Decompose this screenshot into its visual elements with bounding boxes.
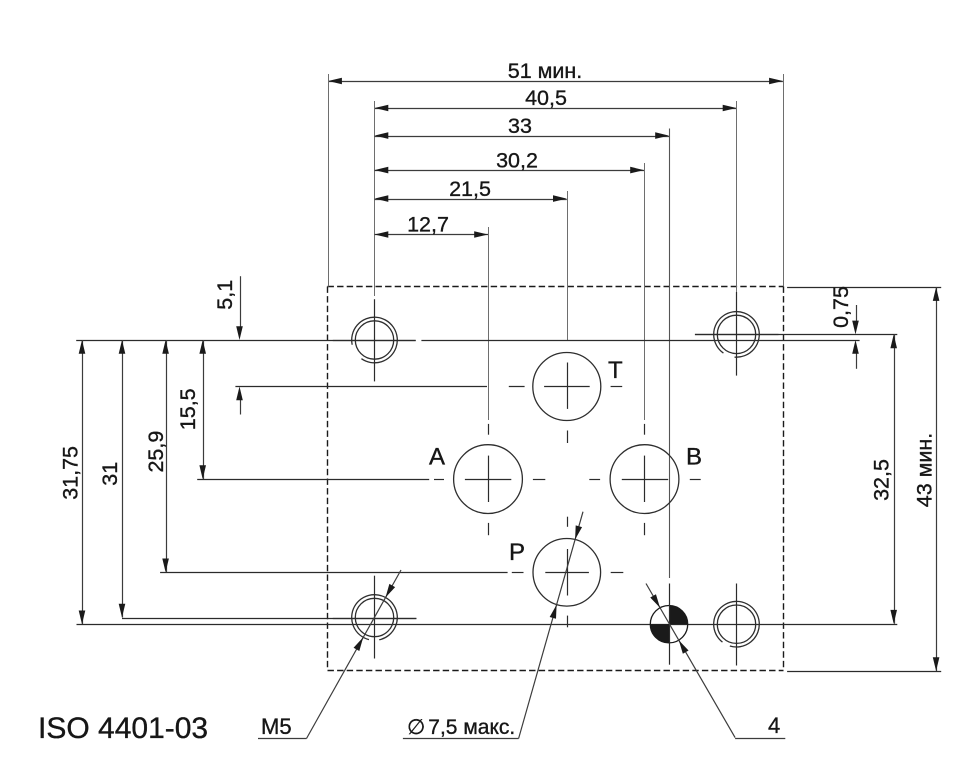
svg-text:32,5: 32,5: [870, 459, 894, 501]
port A: [429, 444, 522, 514]
extension line ports P/T centre: [567, 191, 569, 340]
port P: [509, 539, 601, 607]
svg-text:31: 31: [98, 462, 122, 486]
dimension 31 (left): [98, 340, 125, 618]
P centreline dash below: [567, 616, 569, 628]
port B: [610, 444, 702, 514]
svg-text:25,9: 25,9: [144, 431, 168, 473]
dimension 15,5 (left): [176, 340, 206, 479]
extension line pin hole centre: [669, 129, 671, 579]
svg-text:33: 33: [508, 114, 532, 138]
right extension line F2 level: [695, 334, 897, 336]
svg-text:M5: M5: [261, 714, 292, 739]
svg-text:21,5: 21,5: [449, 177, 491, 201]
A centreline dash left: [434, 479, 444, 481]
svg-text:T: T: [608, 357, 623, 384]
dash between A and B: [589, 479, 600, 481]
P centreline dash above: [567, 517, 569, 527]
extension line F1 centre (x=0 ref): [374, 101, 376, 296]
A centreline dash above: [488, 424, 490, 435]
dimension 21,5: [375, 177, 567, 202]
svg-text:51 мин.: 51 мин.: [508, 59, 583, 83]
P centreline dash right: [611, 572, 624, 574]
svg-text:43 мин.: 43 мин.: [913, 433, 937, 508]
dimension 40,5: [375, 86, 737, 111]
svg-text:30,2: 30,2: [496, 149, 538, 173]
T-P centreline dash: [567, 431, 569, 444]
dimension 32,5 (right): [870, 334, 897, 623]
port T: [533, 353, 623, 421]
extension line left of 51 (plate left edge): [328, 74, 330, 287]
svg-text:P: P: [509, 539, 525, 566]
A centreline dash below: [488, 523, 490, 535]
svg-text:ISO 4401-03: ISO 4401-03: [38, 712, 208, 745]
datum line y=0 (top hole centres level): [76, 340, 416, 342]
svg-text:0,75: 0,75: [829, 286, 853, 328]
svg-text:A: A: [429, 444, 445, 471]
extension line port A centre: [488, 227, 490, 420]
svg-text:15,5: 15,5: [176, 388, 200, 430]
label ∅7,5 макс. with leader: [403, 512, 583, 739]
mounting hole F1 top-left (M5): [333, 299, 416, 381]
bottom holes level line (31,75): [77, 624, 898, 626]
B centreline dash below: [644, 523, 646, 535]
svg-text:5,1: 5,1: [213, 280, 237, 310]
T centreline dash left: [509, 386, 525, 388]
extension line right of 51 (plate right edge): [783, 74, 785, 287]
svg-text:40,5: 40,5: [525, 86, 567, 110]
dimension 31,75 (left): [58, 340, 85, 624]
extension line port B centre: [644, 163, 646, 420]
dimension 51 мин.: [328, 59, 783, 84]
T port level extension line: [235, 386, 487, 388]
B centreline dash above: [644, 424, 646, 435]
extension line F2 centre: [736, 101, 738, 292]
label M5 with leader: [258, 570, 401, 739]
bottom-left hole level line (31): [122, 618, 416, 620]
dimension 43 мин. (right): [913, 287, 940, 671]
P port level extension line: [160, 572, 508, 574]
label 4 with leader: [646, 584, 785, 739]
A/B port level extension line: [197, 479, 429, 481]
mounting hole F3 bottom-right (M5): [714, 584, 760, 666]
svg-text:B: B: [686, 444, 702, 471]
dimension 12,7: [375, 213, 489, 238]
dimension 25,9 (left): [144, 340, 169, 572]
svg-text:12,7: 12,7: [407, 213, 449, 237]
svg-text:∅7,5 макс.: ∅7,5 макс.: [407, 716, 515, 739]
P centreline dash left: [512, 572, 524, 574]
dimension 30,2: [375, 149, 645, 174]
right extension line plate top: [787, 287, 941, 289]
A centreline dash right: [533, 479, 545, 481]
svg-text:31,75: 31,75: [58, 446, 82, 500]
dimension 0,75 (right, arrows outside): [829, 286, 859, 369]
mounting hole F4 bottom-left (M5): [333, 576, 417, 659]
B centreline dash right: [690, 479, 701, 481]
dimension 5,1 (left, arrows outside): [213, 276, 243, 414]
mounting hole F2 top-right (M5): [695, 292, 779, 376]
svg-text:4: 4: [768, 713, 780, 738]
dimension 33: [375, 114, 670, 139]
T centreline dash right: [611, 386, 623, 388]
right extension line plate bottom: [787, 671, 941, 673]
plate outline (dashed mounting surface rectangle): [328, 287, 784, 671]
locating pin hole (quarter-filled datum symbol): [650, 584, 687, 665]
